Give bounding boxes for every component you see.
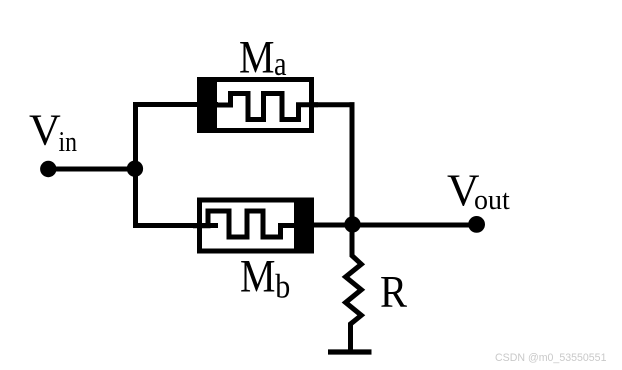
label Vout (447, 166, 510, 217)
wire node B to Vout (311, 223, 477, 228)
node A junction (127, 161, 143, 177)
svg-text:M: M (240, 251, 276, 303)
svg-text:M: M (239, 32, 275, 84)
ground (328, 349, 372, 354)
svg-text:in: in (59, 126, 78, 158)
terminal dot Vout (468, 216, 485, 233)
label Mb (240, 251, 290, 306)
wire Vin to node A (48, 167, 135, 172)
label Vin (29, 105, 77, 158)
node B junction (344, 216, 360, 232)
label Ma (239, 32, 287, 84)
wire top branch left (133, 102, 218, 107)
svg-text:out: out (474, 185, 510, 216)
wire vertical corner to node B (350, 102, 355, 225)
memristor Mb (193, 198, 314, 254)
wire vertical branch at node A (133, 102, 138, 228)
svg-text:a: a (274, 46, 287, 83)
wire bottom branch left (133, 223, 218, 228)
svg-text:CSDN @m0_53550551: CSDN @m0_53550551 (495, 352, 607, 364)
svg-text:R: R (380, 267, 407, 317)
wire Ma output to corner (311, 102, 355, 107)
svg-text:b: b (275, 269, 290, 306)
memristor Ma (197, 77, 318, 133)
svg-text:V: V (29, 105, 61, 154)
resistor R (346, 225, 362, 351)
terminal dot Vin (40, 161, 56, 177)
